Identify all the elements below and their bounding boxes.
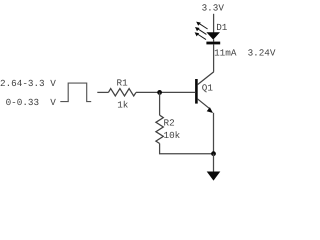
LED light arrow 2 [195, 27, 206, 34]
svg-text:11mA 3.24V: 11mA 3.24V [214, 47, 276, 58]
LED light arrow 3 [195, 32, 206, 39]
svg-text:Q1: Q1 [202, 82, 214, 93]
LED light arrow 1 [196, 22, 207, 29]
svg-text:R2: R2 [164, 117, 175, 128]
svg-text:1k: 1k [117, 100, 129, 111]
wire supply to LED anode [213, 14, 215, 33]
wire to ground [213, 154, 215, 172]
svg-text:R1: R1 [117, 77, 129, 88]
wire R1 to base node [136, 91, 196, 93]
wire node to R2 [159, 92, 161, 115]
resistor R1 [108, 89, 136, 96]
svg-text:10k: 10k [164, 130, 181, 141]
svg-text:0-0.33 V: 0-0.33 V [6, 97, 57, 108]
LED D1 [206, 32, 220, 43]
transistor Q1 [196, 72, 213, 113]
wire emitter down [213, 113, 215, 154]
wire pulse to R1 [97, 91, 108, 93]
svg-text:2.64-3.3 V: 2.64-3.3 V [0, 78, 56, 89]
svg-text:3.3V: 3.3V [202, 3, 225, 14]
node base junction [157, 90, 162, 95]
node ground junction [211, 151, 216, 156]
ground [207, 172, 221, 181]
wire LED cathode to collector [213, 44, 215, 71]
wire R2 to bottom rail [160, 144, 214, 154]
svg-text:D1: D1 [216, 22, 228, 33]
resistor R2 [156, 115, 163, 143]
pulse waveform icon [60, 83, 91, 102]
